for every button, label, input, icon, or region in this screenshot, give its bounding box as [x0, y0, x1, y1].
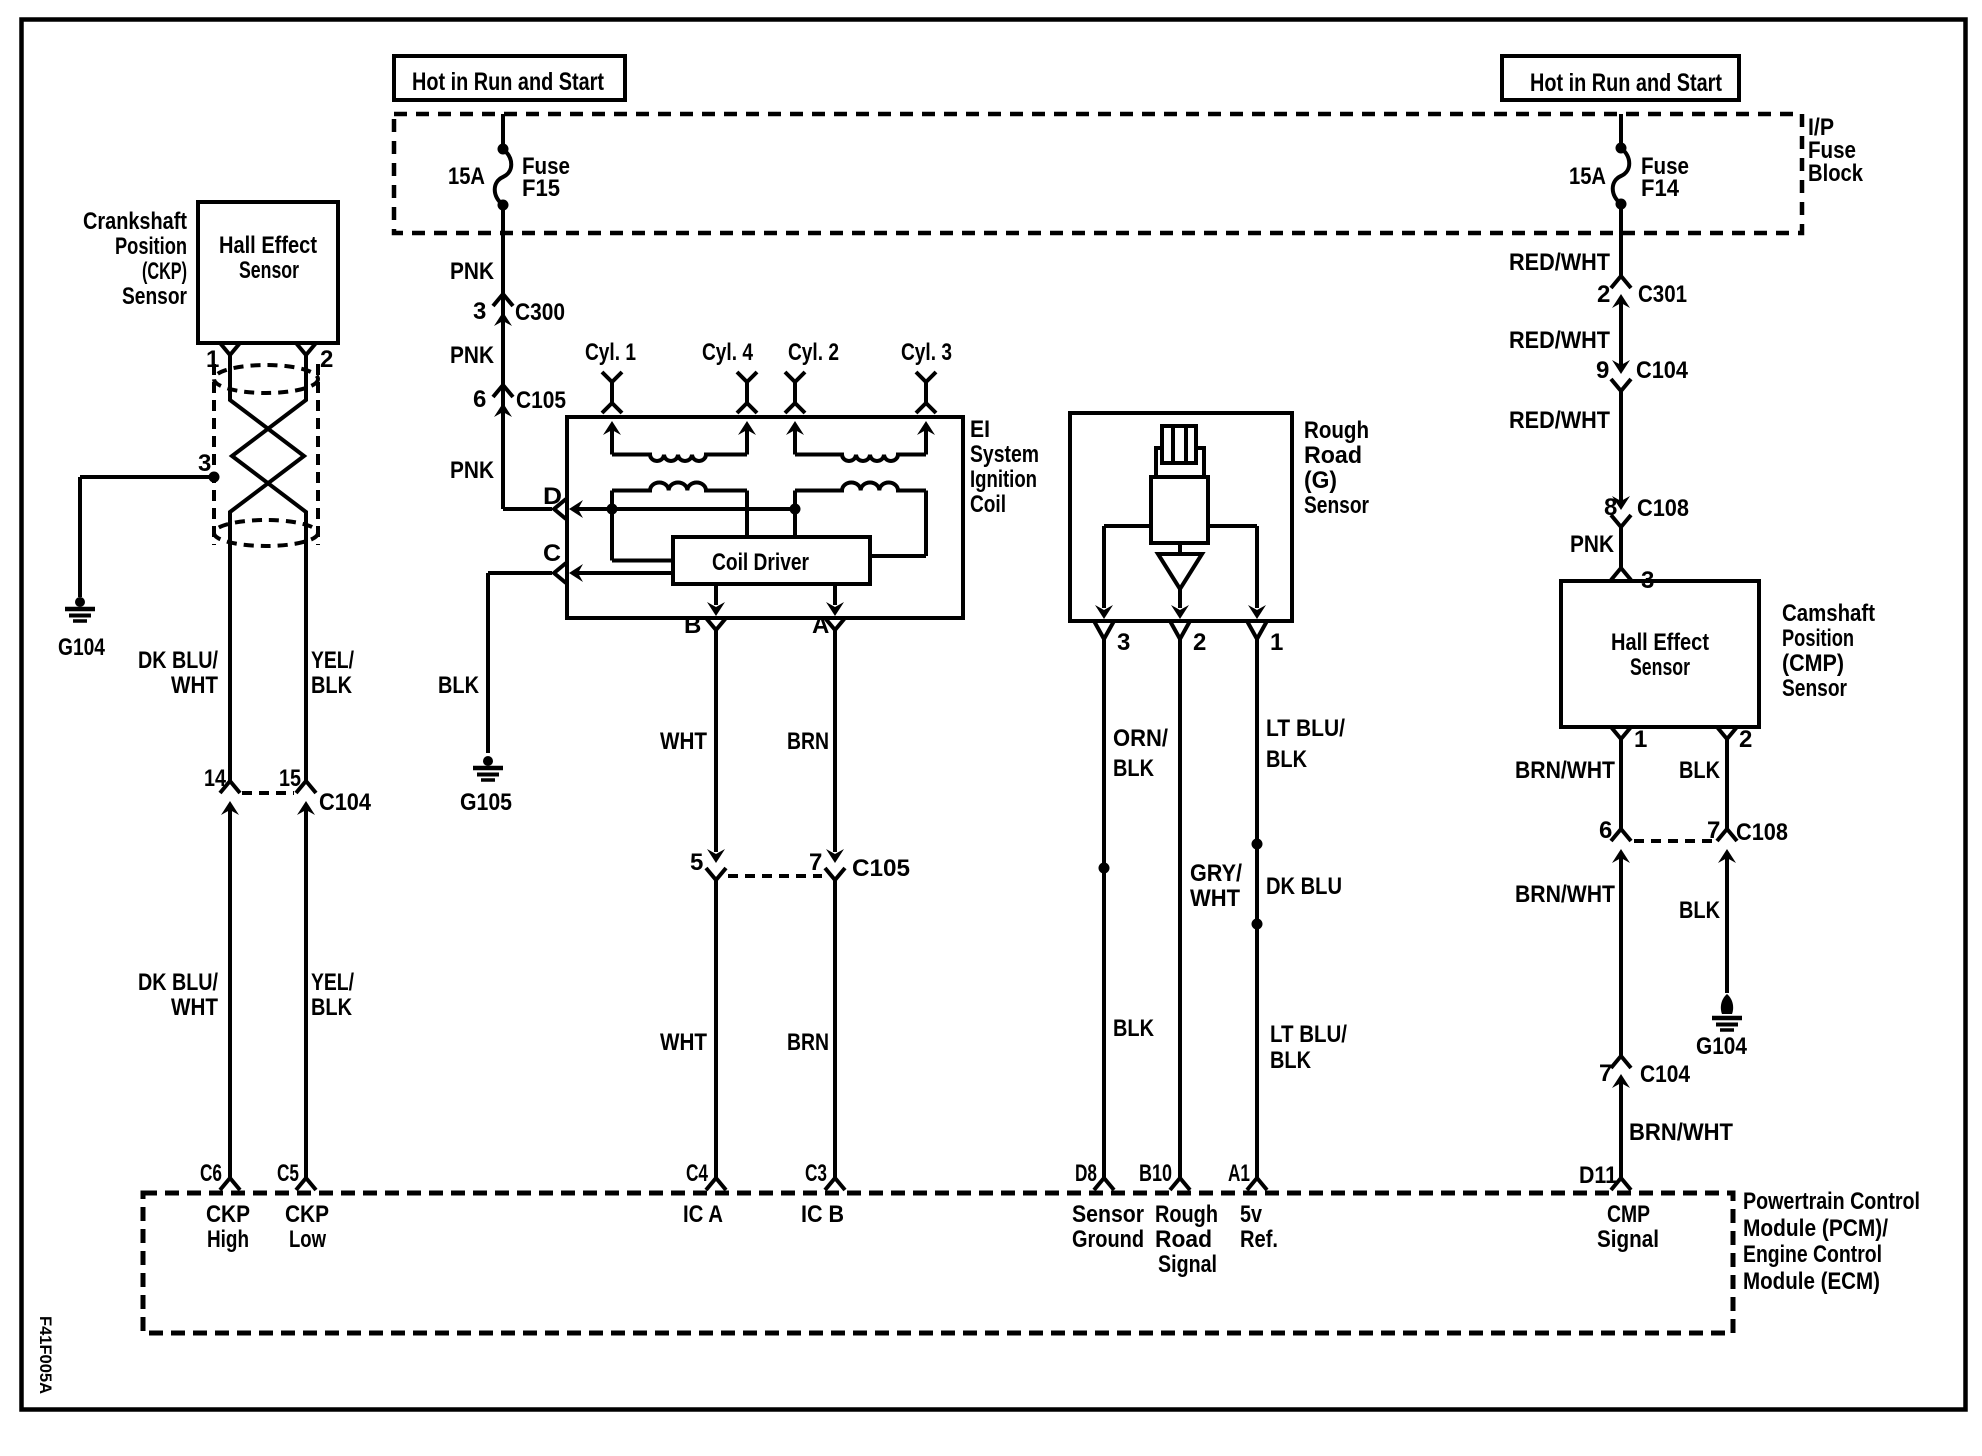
svg-text:D: D	[543, 483, 562, 510]
svg-text:WHT: WHT	[171, 672, 218, 699]
svg-text:6: 6	[1599, 817, 1612, 844]
svg-text:WHT: WHT	[1190, 885, 1240, 912]
svg-text:G105: G105	[460, 789, 512, 816]
svg-text:BLK: BLK	[311, 994, 353, 1021]
svg-text:C104: C104	[1640, 1061, 1691, 1088]
svg-text:System: System	[970, 441, 1039, 468]
svg-text:Sensor: Sensor	[239, 257, 299, 284]
svg-text:LT BLU/: LT BLU/	[1266, 715, 1345, 742]
svg-text:Ref.: Ref.	[1240, 1226, 1278, 1253]
svg-text:BRN: BRN	[787, 728, 829, 755]
svg-text:C301: C301	[1638, 281, 1687, 308]
svg-text:YEL/: YEL/	[311, 647, 354, 674]
svg-text:Road: Road	[1304, 442, 1362, 469]
svg-text:IC A: IC A	[683, 1201, 723, 1228]
svg-text:(CMP): (CMP)	[1782, 650, 1844, 677]
svg-text:Coil Driver: Coil Driver	[712, 549, 809, 576]
svg-text:3: 3	[198, 450, 211, 477]
svg-text:ORN/: ORN/	[1113, 725, 1168, 752]
svg-text:7: 7	[809, 849, 822, 876]
svg-text:Sensor: Sensor	[1072, 1201, 1144, 1228]
svg-text:BLK: BLK	[1113, 1015, 1155, 1042]
svg-text:LT BLU/: LT BLU/	[1270, 1021, 1347, 1048]
svg-text:Engine Control: Engine Control	[1743, 1241, 1882, 1268]
svg-text:3: 3	[1117, 629, 1130, 656]
svg-text:14: 14	[204, 765, 227, 792]
svg-text:8: 8	[1604, 494, 1617, 521]
svg-text:WHT: WHT	[660, 1029, 707, 1056]
svg-text:C3: C3	[805, 1160, 827, 1187]
svg-text:PNK: PNK	[450, 258, 495, 285]
svg-text:C: C	[543, 540, 561, 567]
svg-text:1: 1	[206, 346, 219, 373]
svg-text:RED/WHT: RED/WHT	[1509, 407, 1610, 434]
svg-text:BRN/WHT: BRN/WHT	[1515, 881, 1615, 908]
svg-text:5v: 5v	[1240, 1201, 1263, 1228]
svg-text:BLK: BLK	[1266, 746, 1308, 773]
svg-text:G104: G104	[1696, 1033, 1748, 1060]
svg-text:Hall Effect: Hall Effect	[219, 232, 317, 259]
svg-text:B10: B10	[1139, 1160, 1172, 1187]
svg-text:Sensor: Sensor	[1782, 675, 1847, 702]
svg-text:Hot in Run and Start: Hot in Run and Start	[1530, 69, 1723, 97]
svg-text:Position: Position	[115, 233, 187, 260]
svg-text:Ground: Ground	[1072, 1226, 1144, 1253]
svg-text:2: 2	[320, 346, 333, 373]
svg-text:WHT: WHT	[660, 728, 707, 755]
svg-text:C108: C108	[1736, 819, 1788, 846]
svg-text:D8: D8	[1075, 1160, 1097, 1187]
svg-text:C5: C5	[277, 1160, 299, 1187]
svg-text:BRN/WHT: BRN/WHT	[1629, 1119, 1733, 1146]
svg-text:Rough: Rough	[1304, 417, 1369, 444]
svg-text:Block: Block	[1808, 160, 1864, 187]
svg-text:Low: Low	[289, 1226, 326, 1253]
svg-text:6: 6	[473, 386, 486, 413]
svg-text:DK BLU/: DK BLU/	[138, 647, 218, 674]
svg-text:(G): (G)	[1304, 467, 1337, 494]
svg-text:CMP: CMP	[1607, 1201, 1650, 1228]
svg-text:1: 1	[1270, 629, 1283, 656]
svg-text:2: 2	[1193, 629, 1206, 656]
svg-text:F15: F15	[522, 175, 560, 202]
svg-text:C6: C6	[200, 1160, 222, 1187]
svg-text:Module (PCM)/: Module (PCM)/	[1743, 1215, 1888, 1242]
svg-text:Signal: Signal	[1597, 1226, 1659, 1253]
svg-text:BLK: BLK	[438, 672, 480, 699]
svg-text:(CKP): (CKP)	[142, 258, 187, 285]
svg-text:Sensor: Sensor	[1304, 492, 1369, 519]
svg-text:15A: 15A	[1569, 163, 1606, 190]
svg-text:2: 2	[1739, 726, 1752, 753]
svg-text:C105: C105	[852, 855, 910, 882]
svg-text:BRN: BRN	[787, 1029, 829, 1056]
svg-text:Signal: Signal	[1158, 1251, 1217, 1278]
svg-text:RED/WHT: RED/WHT	[1509, 327, 1610, 354]
svg-text:C108: C108	[1637, 495, 1689, 522]
svg-text:C4: C4	[686, 1160, 708, 1187]
svg-text:GRY/: GRY/	[1190, 860, 1242, 887]
svg-text:DK BLU: DK BLU	[1266, 873, 1342, 900]
svg-text:F14: F14	[1641, 175, 1680, 202]
svg-text:9: 9	[1596, 357, 1609, 384]
svg-text:Sensor: Sensor	[1630, 654, 1690, 681]
svg-text:BLK: BLK	[1679, 757, 1721, 784]
svg-text:C104: C104	[319, 789, 372, 816]
svg-text:Crankshaft: Crankshaft	[83, 208, 187, 235]
svg-text:Cyl. 4: Cyl. 4	[702, 339, 754, 366]
svg-text:YEL/: YEL/	[311, 969, 354, 996]
svg-text:2: 2	[1597, 281, 1610, 308]
svg-text:DK BLU/: DK BLU/	[138, 969, 218, 996]
svg-text:CKP: CKP	[206, 1201, 250, 1228]
svg-text:7: 7	[1707, 817, 1720, 844]
svg-text:A: A	[812, 612, 829, 639]
svg-text:PNK: PNK	[450, 457, 495, 484]
svg-text:15A: 15A	[448, 163, 485, 190]
svg-text:RED/WHT: RED/WHT	[1509, 249, 1610, 276]
svg-text:PNK: PNK	[450, 342, 495, 369]
svg-text:5: 5	[690, 849, 703, 876]
svg-text:C105: C105	[516, 387, 566, 414]
svg-text:Hall Effect: Hall Effect	[1611, 629, 1709, 656]
svg-text:G104: G104	[58, 634, 106, 661]
svg-text:Coil: Coil	[970, 491, 1006, 518]
svg-text:IC B: IC B	[801, 1201, 844, 1228]
svg-text:Road: Road	[1155, 1226, 1212, 1253]
svg-text:Cyl. 2: Cyl. 2	[788, 339, 839, 366]
svg-text:Camshaft: Camshaft	[1782, 600, 1875, 627]
svg-text:C104: C104	[1636, 357, 1689, 384]
svg-text:7: 7	[1599, 1060, 1612, 1087]
svg-text:PNK: PNK	[1570, 531, 1615, 558]
svg-text:3: 3	[473, 298, 486, 325]
svg-text:EI: EI	[970, 416, 990, 443]
svg-text:BRN/WHT: BRN/WHT	[1515, 757, 1615, 784]
svg-text:3: 3	[1641, 567, 1654, 594]
svg-text:Powertrain Control: Powertrain Control	[1743, 1188, 1920, 1215]
svg-text:Rough: Rough	[1155, 1201, 1218, 1228]
svg-text:BLK: BLK	[1679, 897, 1721, 924]
svg-text:BLK: BLK	[311, 672, 353, 699]
svg-text:Ignition: Ignition	[970, 466, 1037, 493]
svg-text:Hot in Run and Start: Hot in Run and Start	[412, 68, 605, 96]
svg-text:15: 15	[279, 765, 301, 792]
svg-text:B: B	[684, 612, 701, 639]
svg-text:1: 1	[1634, 726, 1647, 753]
svg-text:High: High	[207, 1226, 249, 1253]
svg-text:Cyl. 1: Cyl. 1	[585, 339, 636, 366]
svg-text:CKP: CKP	[285, 1201, 329, 1228]
svg-text:D11: D11	[1579, 1162, 1617, 1189]
svg-text:C300: C300	[515, 299, 565, 326]
svg-text:BLK: BLK	[1113, 755, 1155, 782]
svg-text:Position: Position	[1782, 625, 1854, 652]
svg-text:A1: A1	[1228, 1160, 1250, 1187]
svg-text:Sensor: Sensor	[122, 283, 187, 310]
svg-text:WHT: WHT	[171, 994, 218, 1021]
svg-text:Module (ECM): Module (ECM)	[1743, 1268, 1880, 1295]
svg-text:BLK: BLK	[1270, 1047, 1312, 1074]
svg-text:F41F005A: F41F005A	[36, 1316, 55, 1394]
svg-text:Cyl. 3: Cyl. 3	[901, 339, 952, 366]
